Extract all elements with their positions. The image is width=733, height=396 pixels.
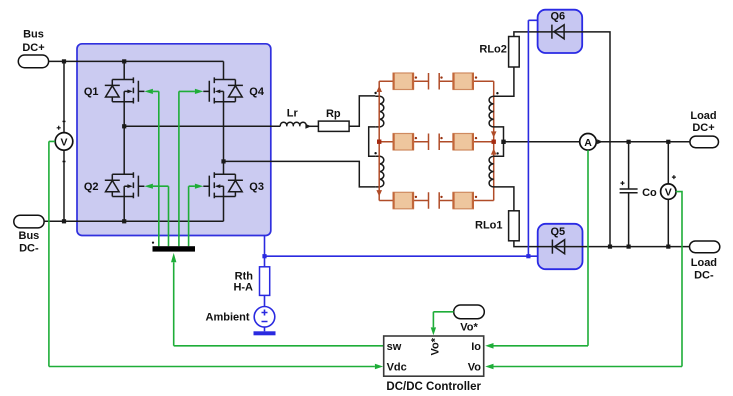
mosfet Q4 [203, 77, 265, 103]
diode subsystem box Q6 [538, 10, 583, 53]
gate signal wire Q3 [189, 184, 204, 247]
diode Q6 [538, 11, 583, 39]
magnetic right rail [493, 81, 495, 200]
flux arrow left rail up [376, 86, 382, 92]
signal wire Io from ammeter to controller [485, 150, 588, 349]
thermal wire to Q6 [528, 20, 537, 256]
junction node plus rail Co [627, 140, 631, 144]
wire bridge left leg [123, 61, 125, 221]
svg-text:Q5: Q5 [550, 226, 565, 238]
port Bus DC+ [18, 29, 48, 68]
junction node minus rail Co [627, 245, 631, 249]
junction node plus rail voltmeter [666, 140, 670, 144]
controller block DC/DC Controller [384, 336, 484, 393]
wire left vertical Bus DC+ to Bus DC- through voltmeter [63, 61, 65, 221]
junction node bridge bottom left [122, 219, 126, 223]
svg-text:Load: Load [690, 110, 716, 122]
capacitor Co [620, 142, 657, 247]
wire ammeter to Load DC+ [596, 141, 690, 143]
flux arrow right rail up [491, 148, 497, 154]
svg-text:sw: sw [387, 341, 402, 353]
svg-text:Q3: Q3 [249, 181, 264, 193]
winding S1 secondary upper [489, 92, 498, 127]
wire RLo1 to output minus rail [514, 241, 690, 247]
mosfet Q2 [84, 172, 145, 198]
svg-text:Bus: Bus [19, 230, 40, 242]
svg-text:Ambient: Ambient [206, 311, 250, 323]
svg-text:RLo2: RLo2 [479, 43, 507, 55]
svg-text:Vo: Vo [468, 361, 482, 373]
svg-text:Q6: Q6 [550, 11, 565, 23]
wire bridge mid rail to Lr [124, 125, 280, 127]
signal wire Vo from output voltmeter to controller [485, 192, 682, 370]
wire secondary top to RLo2 [494, 32, 538, 96]
thermal junction node right [526, 254, 530, 258]
svg-text:RLo1: RLo1 [475, 220, 503, 232]
resistor RLo1 [475, 211, 519, 241]
junction node bus dc- left [62, 219, 66, 223]
svg-text:DC/DC Controller: DC/DC Controller [386, 381, 481, 393]
wire bridge right leg [223, 61, 225, 221]
svg-text:V: V [60, 137, 67, 149]
junction node secondary center tap [501, 140, 505, 144]
svg-text:DC-: DC- [694, 269, 714, 281]
ammeter A [580, 134, 603, 151]
resistor Rp [318, 108, 349, 131]
wire Bus DC+ to bridge top rail [49, 60, 224, 62]
thermal ground [254, 327, 276, 335]
winding P2 primary lower [374, 152, 383, 187]
svg-text:Io: Io [471, 341, 481, 353]
thermal source Ambient [206, 307, 275, 328]
svg-text:A: A [584, 137, 592, 149]
wire secondary center tap to ammeter [494, 127, 580, 156]
svg-text:Vdc: Vdc [387, 361, 407, 373]
junction node bridge top left [122, 59, 126, 63]
svg-text:Load: Load [691, 257, 717, 269]
thermal bus wire [265, 255, 538, 257]
port Load DC+ [690, 110, 719, 148]
mosfet Q1 [84, 77, 145, 103]
svg-text:Vo*: Vo* [460, 322, 478, 334]
svg-text:V: V [665, 187, 672, 199]
diode subsystem box Q5 [538, 224, 583, 269]
voltmeter V bus [55, 121, 73, 161]
thermal wire bridge heatsink to thermal bus [264, 236, 266, 257]
thermal resistor Rth H-A [233, 256, 269, 306]
wire bridge right-leg output to transformer [224, 161, 376, 187]
svg-text:H-A: H-A [233, 282, 253, 294]
signal wire Vdc from bus voltmeter to controller [49, 141, 383, 369]
magnetic junction node right [492, 140, 496, 144]
full-bridge subsystem box [77, 44, 271, 236]
gate signal wire Q4 [179, 89, 204, 246]
gate signal wire Q1 [144, 89, 158, 246]
inductor Lr [280, 107, 311, 128]
svg-text:Q1: Q1 [84, 86, 99, 98]
svg-text:Bus: Bus [23, 29, 44, 41]
winding P1 primary upper [374, 92, 383, 127]
wire Q6 to output minus rail [582, 32, 610, 247]
svg-text:Q2: Q2 [84, 181, 99, 193]
voltmeter V output [661, 142, 676, 247]
junction node minus rail Q6 [608, 245, 612, 249]
flux arrow left rail down [376, 190, 382, 196]
flux arrow right rail down [491, 131, 497, 137]
port Bus DC- [14, 215, 44, 254]
svg-text:Lr: Lr [287, 107, 299, 119]
svg-text:DC+: DC+ [22, 42, 44, 54]
core branch middle row [379, 134, 494, 151]
gate demultiplexer bar [152, 242, 195, 252]
gate signal wire Q2 [144, 184, 168, 247]
port Vo* [454, 305, 485, 334]
wire Bus DC- to bridge bottom rail [44, 220, 223, 222]
diode Q5 [550, 226, 565, 254]
svg-text:Vo*: Vo* [430, 337, 442, 355]
junction node bridge mid left [122, 124, 126, 128]
junction node bus dc+ [62, 59, 66, 63]
wire secondary bottom to RLo1 [494, 187, 514, 211]
junction node minus rail voltmeter [666, 245, 670, 249]
svg-text:Rp: Rp [326, 108, 341, 120]
magnetic junction node left [377, 140, 381, 144]
signal wire Vo* port to controller [431, 312, 454, 335]
thermal junction node left [262, 254, 266, 258]
winding S2 secondary lower [489, 152, 499, 187]
svg-text:Q4: Q4 [249, 86, 265, 98]
svg-text:Co: Co [642, 187, 657, 199]
svg-text:DC-: DC- [19, 243, 39, 255]
core branch bottom row [379, 192, 494, 209]
magnetic left rail [378, 81, 380, 200]
mosfet Q3 [203, 172, 264, 198]
svg-text:DC+: DC+ [692, 122, 714, 134]
wire Lr to Rp [306, 125, 318, 127]
port Load DC- [690, 241, 720, 281]
signal wire sw to demultiplexer [171, 253, 384, 346]
core branch top row [379, 73, 494, 90]
resistor RLo2 [479, 37, 519, 68]
wire linking primary windings [369, 127, 376, 156]
junction node bridge mid right [221, 159, 225, 163]
wire Rp to primary winding 1 [349, 96, 375, 126]
